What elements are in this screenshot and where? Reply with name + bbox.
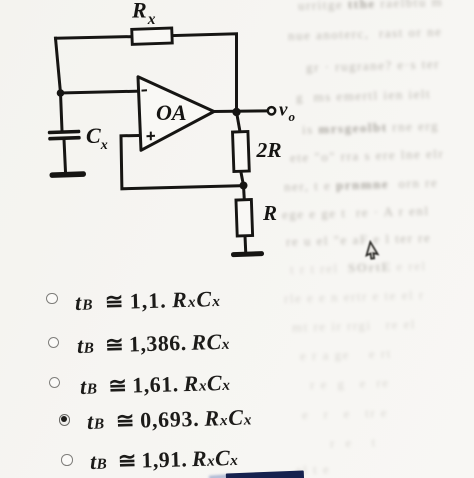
svg-text:Cx: Cx [86,123,108,153]
svg-text:vo: vo [279,100,295,125]
svg-text:2R: 2R [256,138,282,162]
svg-text:Rx: Rx [131,0,156,28]
svg-text:OA: OA [156,100,187,125]
svg-text:R: R [262,201,277,225]
